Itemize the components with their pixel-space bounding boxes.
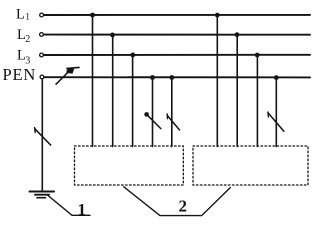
- svg-text:2: 2: [25, 34, 30, 45]
- svg-text:1: 1: [25, 12, 30, 22]
- svg-text:2: 2: [179, 197, 188, 216]
- svg-text:1: 1: [78, 200, 87, 219]
- svg-text:PEN: PEN: [3, 65, 37, 84]
- svg-text:L: L: [16, 7, 25, 23]
